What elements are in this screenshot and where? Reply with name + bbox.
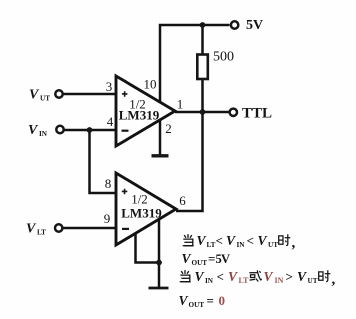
svg-text:3: 3 [106, 79, 113, 94]
svg-text:5V: 5V [216, 252, 230, 266]
svg-text:V: V [179, 293, 189, 308]
svg-text:IN: IN [39, 130, 48, 138]
svg-text:V: V [297, 269, 307, 284]
svg-text:0: 0 [219, 293, 226, 308]
svg-text:V: V [226, 233, 236, 248]
svg-text:6: 6 [179, 193, 186, 208]
svg-text:8: 8 [105, 176, 112, 191]
svg-text:10: 10 [144, 77, 157, 92]
svg-text:LT: LT [37, 229, 46, 237]
svg-text:V: V [28, 123, 39, 138]
svg-text:V: V [195, 269, 205, 284]
svg-text:UT: UT [308, 277, 318, 285]
svg-text:V: V [264, 269, 274, 284]
svg-text:500: 500 [213, 50, 234, 65]
svg-text:9: 9 [104, 211, 111, 226]
svg-text:4: 4 [107, 114, 114, 129]
svg-text:<: < [217, 269, 224, 284]
svg-text:=: = [207, 293, 214, 308]
svg-text:<: < [247, 233, 254, 248]
svg-text:LM319: LM319 [119, 108, 160, 123]
svg-text:V: V [26, 222, 37, 237]
svg-text:IN: IN [275, 276, 284, 285]
svg-text:TTL: TTL [242, 106, 272, 122]
svg-text:V: V [228, 269, 238, 284]
svg-text:2: 2 [165, 121, 172, 136]
svg-text:LT: LT [207, 241, 216, 249]
svg-text:5V: 5V [246, 18, 263, 33]
svg-text:V: V [258, 233, 268, 248]
svg-text:1/2: 1/2 [131, 192, 148, 207]
svg-text:UT: UT [268, 241, 278, 249]
svg-text:,: , [332, 272, 336, 288]
svg-text:V: V [29, 88, 40, 103]
svg-text:OUT: OUT [192, 259, 208, 267]
svg-text:V: V [182, 251, 192, 266]
svg-text:>: > [286, 269, 293, 284]
svg-text:OUT: OUT [189, 301, 205, 309]
svg-text:<: < [216, 233, 223, 248]
svg-text:IN: IN [205, 277, 214, 285]
svg-text:IN: IN [237, 241, 246, 249]
svg-text:LT: LT [239, 276, 250, 285]
svg-text:1: 1 [177, 97, 184, 112]
svg-text:,: , [292, 235, 296, 251]
svg-text:LM319: LM319 [121, 206, 162, 221]
svg-text:UT: UT [40, 95, 50, 103]
svg-text:=: = [208, 251, 215, 266]
svg-text:V: V [197, 233, 207, 248]
